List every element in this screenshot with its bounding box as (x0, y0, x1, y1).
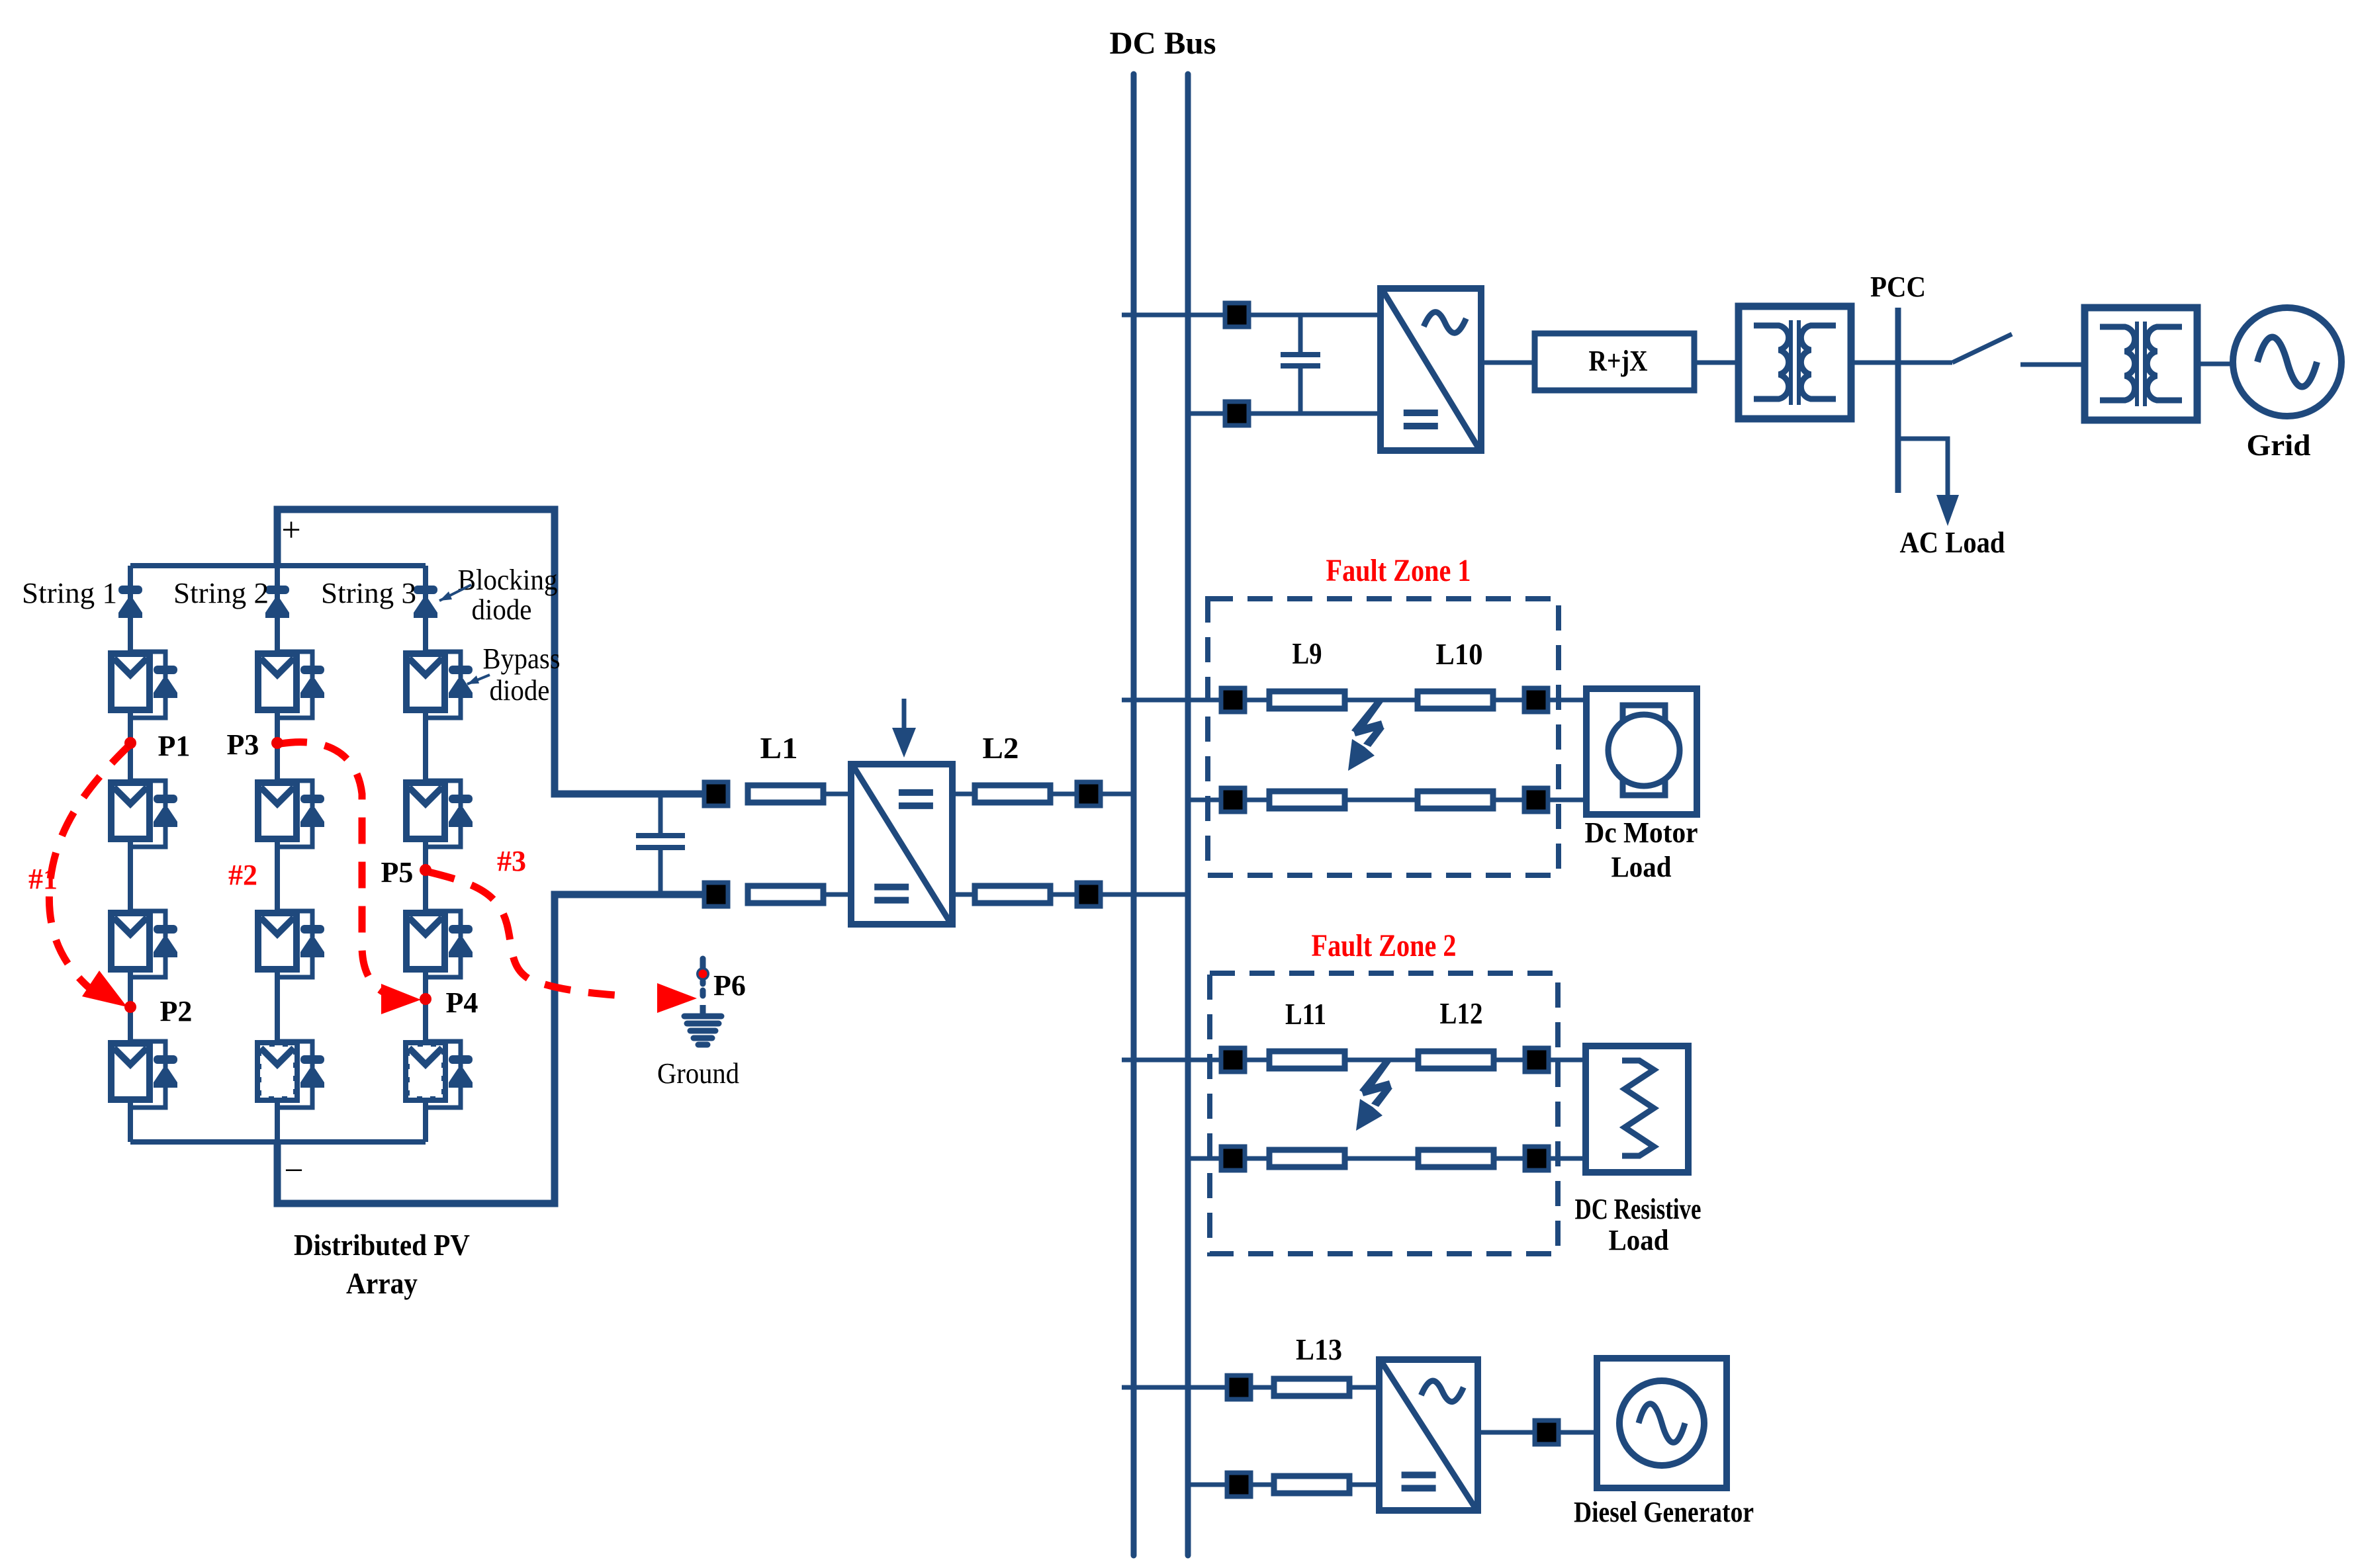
breaker square inverter negative (1225, 402, 1249, 425)
wire R+jX to transformer T1 (1694, 361, 1739, 365)
wire string 3 vertical (423, 566, 428, 1142)
bypass branch string 3 module 4 diode (449, 1055, 473, 1088)
svg-text:P2: P2 (160, 995, 193, 1027)
inductor L12 bottom (1418, 1150, 1494, 1167)
bypass branch string 1 module 4 (130, 1041, 165, 1108)
label L11 (1285, 997, 1326, 1031)
capacitor PV link (636, 794, 685, 894)
PCC bus bar (1895, 308, 1901, 493)
bypass branch string 3 module 3 (426, 911, 461, 977)
PV module string 2 M2 (258, 783, 296, 839)
svg-text:R+jX: R+jX (1589, 345, 1648, 377)
PV module string 1 M1 (111, 654, 150, 710)
svg-text:String 2: String 2 (173, 577, 269, 609)
label Ground (657, 1057, 739, 1090)
svg-text:L9: L9 (1292, 636, 1322, 670)
svg-text:diode: diode (472, 593, 532, 626)
label P3 (227, 728, 259, 761)
label Bypass diode line1 (483, 642, 561, 675)
inductor L10 top (1418, 691, 1493, 709)
AC load arrow (1936, 495, 1959, 526)
PV module string 1 M2 (111, 783, 150, 839)
svg-text:Load: Load (1609, 1224, 1669, 1256)
svg-text:L2: L2 (983, 731, 1019, 765)
label Dc Motor (1585, 816, 1698, 849)
converter U2 (PV DC/DC) (851, 764, 952, 924)
breaker square PV positive out (1077, 782, 1101, 806)
breaker square PV negative out (1077, 883, 1101, 906)
bypass branch string 2 module 4 (277, 1041, 312, 1108)
wire bus to inverter positive (1122, 313, 1381, 318)
bypass branch string 2 module 1 (277, 652, 312, 718)
svg-text:String 1: String 1 (22, 577, 117, 609)
inductor L2 top (975, 785, 1050, 803)
label P5 (381, 856, 414, 889)
wire converter to L2 bottom (952, 893, 975, 897)
arrowhead bypass diode pointer (467, 675, 479, 684)
label Grid (2247, 428, 2311, 462)
svg-text:Load: Load (1611, 851, 1672, 883)
inductor L12 top (1418, 1051, 1494, 1068)
breaker square PV positive in (704, 782, 728, 806)
wire inverter to R+jX (1481, 361, 1535, 365)
label Distributed PV (294, 1228, 470, 1262)
svg-text:P4: P4 (446, 986, 478, 1019)
arrowhead blocking diode pointer (439, 591, 452, 601)
inductor L13 top (1274, 1379, 1349, 1396)
breaker square resistive feeder positive out (1525, 1048, 1549, 1072)
label P2 (160, 995, 193, 1027)
label L9 (1292, 636, 1322, 670)
bypass branch string 3 module 1 (426, 652, 461, 718)
svg-text:PCC: PCC (1870, 271, 1926, 303)
fault point P5 (420, 864, 431, 876)
svg-text:L12: L12 (1440, 996, 1483, 1030)
wire PV + rail (277, 509, 716, 794)
svg-text:L1: L1 (760, 731, 798, 765)
blocking diode string 2 (265, 586, 289, 618)
label L12 (1440, 996, 1483, 1030)
wire L2 to bus positive (1050, 792, 1134, 797)
breaker square resistive feeder positive in (1221, 1048, 1245, 1072)
wire PV - rail (277, 894, 716, 1203)
PV module string 2 M3 (258, 913, 296, 969)
svg-text:L13: L13 (1296, 1332, 1342, 1366)
PV module string 1 M3 (111, 913, 150, 969)
fault bolt zone 1 (1348, 700, 1384, 771)
bypass branch string 2 module 1 diode (300, 666, 324, 698)
label L10 (1436, 637, 1483, 671)
wire L1 to converter top (823, 792, 851, 797)
wire diesel feeder negative (1188, 1483, 1379, 1487)
wire L2 to bus negative (1050, 893, 1188, 897)
svg-text:L10: L10 (1436, 637, 1483, 671)
wire resistive feeder negative (1188, 1156, 1586, 1161)
breaker square diesel generator (1535, 1420, 1559, 1444)
svg-text:+: + (281, 511, 300, 549)
label String 2 (173, 577, 269, 609)
svg-text:#1: #1 (28, 863, 58, 895)
label DC Bus (1110, 26, 1216, 61)
label Resistive Load (1609, 1224, 1669, 1256)
breaker square resistive feeder negative in (1221, 1147, 1245, 1170)
wire switch to transformer T2 (2020, 363, 2086, 367)
fault path #2 arrowhead (381, 984, 421, 1014)
wire diesel inverter to generator (1478, 1430, 1597, 1435)
label AC Load (1900, 525, 2005, 559)
wire string 1 vertical (128, 566, 133, 1142)
PV module string 3 M3 (406, 913, 445, 969)
svg-text:Diesel Generator: Diesel Generator (1574, 1496, 1754, 1528)
label P6 (713, 969, 746, 1002)
svg-text:#3: #3 (497, 845, 526, 877)
wire converter to L2 top (952, 792, 975, 797)
svg-text:Fault Zone 2: Fault Zone 2 (1312, 928, 1457, 963)
label plus terminal (281, 511, 300, 549)
blocking diode string 1 (118, 586, 142, 618)
label Bypass diode line2 (490, 674, 550, 707)
wire motor feeder positive (1122, 698, 1586, 703)
wire diesel feeder positive (1122, 1385, 1379, 1390)
inductor L2 bottom (975, 886, 1050, 903)
bypass branch string 1 module 3 diode (154, 925, 177, 957)
label #3 (497, 845, 526, 877)
wire transformer T2 to grid (2197, 362, 2233, 367)
label PCC (1870, 271, 1926, 303)
svg-text:Bypass: Bypass (483, 642, 561, 675)
wire L1 to converter bottom (823, 893, 851, 897)
breaker square motor feeder positive in (1221, 688, 1245, 712)
inverter U3 (diesel DC/AC) (1379, 1360, 1478, 1510)
inductor L11 bottom (1269, 1150, 1345, 1167)
inductor L9 top (1269, 691, 1345, 709)
wire string top line (130, 563, 426, 568)
label Fault Zone 1 (1326, 553, 1471, 588)
svg-text:P5: P5 (381, 856, 414, 889)
wire motor feeder negative (1188, 798, 1586, 803)
fault point P2 (124, 1001, 136, 1013)
svg-text:AC Load: AC Load (1900, 525, 2005, 559)
breaker square motor feeder negative in (1221, 788, 1245, 812)
inductor L10 bottom (1418, 791, 1493, 808)
fault point P1 (124, 737, 136, 749)
inductor L11 top (1269, 1051, 1345, 1068)
fault point P4 (420, 993, 431, 1005)
label L2 (983, 731, 1019, 765)
blocking diode string 3 (414, 586, 437, 618)
label #2 (228, 859, 257, 891)
fault path #2 dashed curve (281, 742, 392, 996)
svg-text:Array: Array (346, 1266, 418, 1300)
bypass branch string 2 module 3 (277, 911, 312, 977)
ground symbol (684, 1005, 721, 1045)
label Blocking diode line2 (472, 593, 532, 626)
bypass branch string 2 module 2 (277, 781, 312, 847)
breaker square diesel positive (1227, 1375, 1251, 1399)
label Blocking diode line1 (458, 564, 558, 596)
wire string bottom line (130, 1139, 426, 1145)
DC resistive load symbol (1586, 1046, 1688, 1172)
label R+jX (1589, 345, 1648, 377)
transformer T2 (2085, 308, 2197, 420)
DC bus right rail (1185, 74, 1191, 1555)
svg-text:Ground: Ground (657, 1057, 739, 1090)
wire resistive feeder positive (1122, 1058, 1586, 1063)
svg-text:diode: diode (490, 674, 550, 707)
label Diesel Generator (1574, 1496, 1754, 1528)
PV module string 3 M4 (406, 1043, 445, 1100)
svg-text:String 3: String 3 (321, 577, 416, 609)
bypass branch string 1 module 2 (130, 781, 165, 847)
DC bus left rail (1131, 74, 1137, 1555)
fault bolt zone 2 (1356, 1060, 1392, 1131)
control arrow into converter (892, 699, 916, 758)
bypass branch string 3 module 3 diode (449, 925, 473, 957)
transformer T1 (1739, 306, 1851, 419)
svg-text:DC Bus: DC Bus (1110, 26, 1216, 61)
fault zone 1 dashed boundary (1208, 599, 1559, 875)
breaker square motor feeder negative out (1524, 788, 1548, 812)
svg-text:Distributed PV: Distributed PV (294, 1228, 470, 1262)
label Motor Load (1611, 851, 1672, 883)
label P1 (158, 730, 191, 762)
svg-text:Dc Motor: Dc Motor (1585, 816, 1698, 849)
svg-text:#2: #2 (228, 859, 257, 891)
bypass branch string 3 module 1 diode (449, 666, 473, 698)
label #1 (28, 863, 58, 895)
PV module string 3 M1 (406, 654, 445, 710)
svg-text:L11: L11 (1285, 997, 1326, 1031)
inverter U1 (DC/AC grid-tie) (1381, 288, 1481, 451)
PV module string 3 M2 (406, 783, 445, 839)
fault path #3 arrowhead (657, 983, 697, 1013)
node P6 dashed stub (696, 959, 709, 996)
bypass branch string 1 module 3 (130, 911, 165, 977)
DC motor load symbol (1586, 689, 1697, 814)
bypass branch string 1 module 4 diode (154, 1055, 177, 1088)
fault point P3 (271, 737, 283, 749)
bypass branch string 3 module 2 (426, 781, 461, 847)
bypass branch string 1 module 1 (130, 652, 165, 718)
inductor L9 bottom (1269, 791, 1345, 808)
inductor L13 bottom (1274, 1476, 1349, 1493)
grid source circle (2233, 308, 2341, 416)
label Fault Zone 2 (1312, 928, 1457, 963)
switch blade (1952, 334, 2012, 363)
bypass branch string 1 module 2 diode (154, 795, 177, 827)
label DC Resistive (1575, 1193, 1701, 1225)
svg-text:−: − (284, 1152, 303, 1190)
label minus terminal (284, 1152, 303, 1190)
bypass branch string 2 module 3 diode (300, 925, 324, 957)
bypass branch string 1 module 1 diode (154, 666, 177, 698)
svg-text:P6: P6 (713, 969, 746, 1002)
PV module string 2 M4 (258, 1043, 296, 1100)
diesel generator symbol (1597, 1358, 1727, 1488)
fault path #1 arrowhead (82, 971, 127, 1007)
PV module string 1 M4 (111, 1043, 150, 1100)
svg-text:Fault Zone 1: Fault Zone 1 (1326, 553, 1471, 588)
bypass branch string 3 module 2 diode (449, 795, 473, 827)
svg-text:DC Resistive: DC Resistive (1575, 1193, 1701, 1225)
label P4 (446, 986, 478, 1019)
wire transformer T1 to PCC (1851, 361, 1952, 365)
breaker square PV negative in (704, 883, 728, 906)
fault zone 2 dashed boundary (1210, 973, 1558, 1254)
inductor L1 bottom (748, 886, 823, 903)
svg-text:Blocking: Blocking (458, 564, 558, 596)
breaker square inverter positive (1225, 303, 1249, 327)
inductor L1 top (748, 785, 823, 803)
label String 1 (22, 577, 117, 609)
capacitor DC-link inverter (1281, 315, 1320, 414)
fault point P6 (699, 970, 707, 979)
bypass branch string 3 module 4 (426, 1041, 461, 1108)
wire bus to inverter negative (1188, 412, 1381, 416)
svg-text:P1: P1 (158, 730, 191, 762)
wire AC load branch (1898, 439, 1948, 495)
label L1 (760, 731, 798, 765)
bypass branch string 2 module 4 diode (300, 1055, 324, 1088)
breaker square diesel negative (1227, 1473, 1251, 1497)
arrow to bypass diode (467, 675, 490, 684)
breaker square resistive feeder negative out (1525, 1147, 1549, 1170)
PV module string 2 M1 (258, 654, 296, 710)
bypass branch string 2 module 2 diode (300, 795, 324, 827)
breaker square motor feeder positive out (1524, 688, 1548, 712)
impedance R+jX box (1535, 333, 1694, 390)
svg-text:P3: P3 (227, 728, 259, 761)
label Array (346, 1266, 418, 1300)
svg-text:Grid: Grid (2247, 428, 2311, 462)
arrow to blocking diode (439, 585, 471, 601)
label String 3 (321, 577, 416, 609)
fault path #3 dashed curve (429, 872, 632, 996)
fault path #1 dashed curve (49, 744, 130, 996)
label L13 (1296, 1332, 1342, 1366)
wire string 2 vertical (275, 566, 280, 1142)
